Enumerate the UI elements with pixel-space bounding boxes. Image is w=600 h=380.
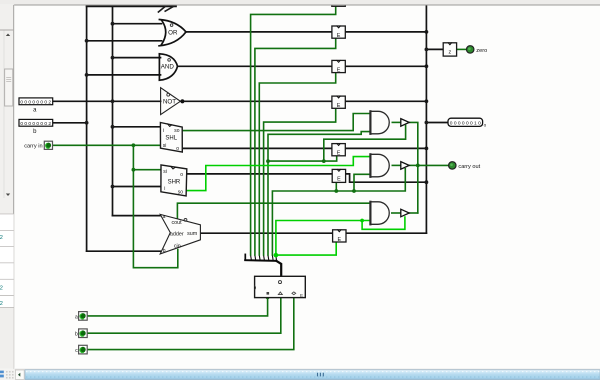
node AND-top tap <box>111 56 115 60</box>
wire AND2 to buffer T2 <box>392 164 400 166</box>
buffer T1 <box>401 119 409 127</box>
wire T3 output joins carry bus <box>409 212 417 214</box>
wire result bus to output pin <box>426 122 448 124</box>
dots grid icon <box>6 371 13 378</box>
wire AND1 to buffer T1 <box>392 121 400 123</box>
svg-text:32: 32 <box>0 301 3 307</box>
attribute area lower gray <box>0 308 14 369</box>
buffer T2 <box>401 162 409 170</box>
node s0 at decoder <box>266 296 270 300</box>
svg-text:o: o <box>176 146 179 152</box>
wire w6 riser to E6 <box>335 183 337 191</box>
wire E2 output to result bus <box>345 31 426 33</box>
node carry-SHR junction <box>132 168 136 172</box>
node carry corner <box>132 143 136 147</box>
svg-text:i: i <box>164 186 165 192</box>
node carry bus junction <box>416 164 420 168</box>
splitter top slashes <box>158 5 176 12</box>
wire a-bus to adder a <box>113 215 161 217</box>
blue bars <box>0 371 4 374</box>
wire SHL so to AND1 top input <box>182 114 370 131</box>
node SHR joins result bus <box>425 180 429 184</box>
wire OR input top <box>113 23 162 25</box>
wire splitter elbow to decoder <box>276 261 281 276</box>
svg-text:E: E <box>337 67 341 73</box>
wire enable w8 bright riser <box>276 221 371 256</box>
wire b-bus vertical <box>86 6 88 251</box>
attribute values teal 2s <box>0 235 3 307</box>
wire AND input bottom <box>87 74 161 76</box>
wire w6 riser to AND2 input <box>354 174 370 191</box>
wire enable w2 <box>255 38 336 255</box>
scrollbar left button <box>15 370 24 379</box>
left panel right border <box>13 5 15 369</box>
scrollbar down arrow <box>6 194 10 197</box>
scrollbar track edge <box>3 31 5 199</box>
svg-text:SHL: SHL <box>165 136 177 142</box>
svg-text:b: b <box>75 332 78 338</box>
wire input b to b-bus <box>53 122 87 124</box>
svg-text:0 0 0 0 0 0 1 0: 0 0 0 0 0 0 1 0 <box>450 121 482 126</box>
svg-text:cin: cin <box>174 244 181 250</box>
wire result bus vertical <box>425 0 427 233</box>
wire adder cout to AND3 <box>177 203 370 219</box>
svg-text:NOT: NOT <box>163 99 176 106</box>
wire splitter spine <box>245 259 276 262</box>
wire carry to SHR si <box>133 169 161 171</box>
attribute table rows <box>0 214 14 308</box>
wire enable w3 <box>259 73 335 255</box>
wire select s2 <box>87 298 294 350</box>
tri-state buffer E4 (NOT) <box>332 96 345 108</box>
tri-state buffer E5 (SHL) <box>332 144 345 156</box>
node output pin tap <box>425 121 429 125</box>
wire b-bus to adder b <box>87 250 161 252</box>
wire enable w1 <box>251 6 336 255</box>
svg-text:0 0 0 0 0 0 0 2: 0 0 0 0 0 0 0 2 <box>20 121 51 126</box>
tri-state buffer E6 (SHR) <box>332 169 345 182</box>
wire enable w6 <box>272 169 405 255</box>
wire OR output to E2 <box>186 31 332 33</box>
wire AND3 to buffer T3 <box>392 212 401 214</box>
input pin b (8-bit) <box>19 119 53 126</box>
node w8 branch junction <box>360 219 364 223</box>
wire top splitter feed <box>87 5 176 7</box>
wire OR input bottom <box>87 40 162 42</box>
svg-text:o: o <box>180 172 183 178</box>
subcircuit SHR <box>161 165 187 196</box>
node w6-AND2 junction <box>352 189 356 193</box>
scrollbar grip <box>318 373 324 377</box>
tri-state buffer E7 (sum) <box>333 230 346 242</box>
node OR-bot tap <box>85 39 89 43</box>
subcircuit zero detector <box>443 43 456 56</box>
left panel background <box>0 5 14 367</box>
svg-text:adder: adder <box>170 231 184 237</box>
node SHR-i tap <box>111 185 115 189</box>
wire AND output to E3 <box>178 65 332 67</box>
node w8 splitter junction <box>274 253 279 258</box>
NOT output bubble <box>180 99 184 103</box>
wire enable w5 vertical <box>268 132 370 255</box>
node w6-E6 junction <box>334 189 338 193</box>
node a joins a-bus <box>111 99 115 103</box>
splitter teeth <box>251 255 277 260</box>
wire select s1 <box>87 298 281 334</box>
tri-state buffer E2 (OR) <box>332 26 345 38</box>
bottom-left corner widgets <box>0 369 15 380</box>
wire result bus to zero detector <box>426 48 443 50</box>
wire carry bus to carry-out LED <box>418 164 448 166</box>
wire SHL data input <box>113 126 162 128</box>
buffer T3 <box>401 209 409 217</box>
wire w8 branch to T3 control <box>362 217 405 229</box>
wire T1 output to carry bus <box>409 122 417 213</box>
wire input a to NOT <box>53 100 161 102</box>
node AND-bot tap <box>85 73 89 77</box>
tri-state buffer E3 (AND) <box>332 60 345 72</box>
svg-text:carry out: carry out <box>458 164 480 170</box>
scrollbar up arrow <box>6 34 10 37</box>
wire enable w5 branch to E5 and gate <box>268 156 337 161</box>
svg-text:si: si <box>163 169 167 175</box>
svg-text:cout: cout <box>171 220 182 226</box>
op-amp style gate OR1 <box>159 20 186 46</box>
gate AND2g (SHL carry) <box>370 111 389 134</box>
wire adder sum to E7 <box>200 232 332 234</box>
wire E6 output jog to result bus <box>345 174 427 182</box>
output LED zero <box>467 46 474 53</box>
svg-text:a: a <box>163 214 166 220</box>
node OR-top tap <box>111 22 115 26</box>
gate NOT1 <box>161 88 181 115</box>
svg-text:E: E <box>337 237 341 243</box>
node OR joins result bus <box>425 30 429 34</box>
wire select s0 <box>87 298 267 316</box>
svg-text:0 0 0 0 0 0 0 2: 0 0 0 0 0 0 0 2 <box>20 99 51 104</box>
node NOT joins result bus <box>425 99 429 103</box>
wire w5 riser to AND1 buffer control <box>324 125 406 161</box>
svg-text:i: i <box>163 128 164 134</box>
svg-text:AND: AND <box>161 64 175 71</box>
wire carry-in down and to adder cin <box>133 145 177 267</box>
node b joins b-bus <box>85 121 89 125</box>
svg-text:E: E <box>337 176 341 182</box>
svg-text:E: E <box>337 151 341 157</box>
svg-text:o: o <box>484 122 487 127</box>
wire w8 to E7 enable <box>276 241 336 256</box>
svg-text:SHR: SHR <box>168 180 181 186</box>
gate AND1g <box>159 54 177 80</box>
node AND joins result bus <box>425 64 429 68</box>
svg-text:b: b <box>163 248 166 254</box>
svg-text:E: E <box>337 103 341 109</box>
wire a-bus vertical <box>112 6 114 215</box>
subcircuit decoder <box>255 276 306 297</box>
svg-text:E: E <box>300 293 303 298</box>
input pin a (8-bit) <box>19 98 53 105</box>
svg-text:a: a <box>75 314 78 320</box>
wire SHR o output to E6 <box>187 173 332 175</box>
horizontal scrollbar track <box>15 369 600 380</box>
svg-text:OR: OR <box>168 29 178 36</box>
top toolbar strip <box>0 0 600 5</box>
wire SHR data input <box>113 186 162 188</box>
wire carry-in main <box>53 144 161 146</box>
svg-text:so: so <box>174 128 180 134</box>
wire E5 output to result bus <box>345 147 426 149</box>
node w5 T junction <box>266 159 270 163</box>
svg-text:E: E <box>337 33 341 39</box>
node zero tap <box>425 48 429 52</box>
panel divider <box>0 29 14 31</box>
subcircuit adder <box>160 214 200 254</box>
node w5 branch junction <box>322 159 326 163</box>
output LED carry out <box>449 162 456 169</box>
node SHL-i tap <box>111 125 115 129</box>
tri-state buffer E1 (top, cut off) <box>332 0 346 6</box>
wire NOT output to E4 <box>184 100 332 102</box>
subcircuit SHL <box>160 123 182 153</box>
wire T2 output joins carry bus <box>409 164 417 166</box>
gate AND4g (adder carry) <box>370 202 389 225</box>
output pin result (8-bit) <box>448 118 483 126</box>
wire SHL o output to E5 <box>182 147 332 149</box>
wire splitter left stub <box>244 254 246 260</box>
wire enable w4 <box>264 108 336 255</box>
node SHL joins result bus <box>425 147 429 151</box>
wire SHR so bright <box>186 157 370 191</box>
gate AND3g (SHR carry) <box>370 154 389 177</box>
svg-text:32: 32 <box>0 286 3 292</box>
wire E3 output to result bus <box>345 65 426 67</box>
svg-text:so: so <box>178 190 184 196</box>
svg-text:si: si <box>163 143 167 149</box>
svg-text:z: z <box>449 50 452 56</box>
wire zero detector to LED <box>457 48 466 50</box>
scrollbar thumb <box>5 69 13 106</box>
wire AND input top <box>113 57 161 59</box>
svg-text:zero: zero <box>476 48 487 54</box>
svg-text:carry in: carry in <box>24 143 42 149</box>
wire E4 output to result bus <box>345 100 426 102</box>
wire E7 output to result bus corner <box>344 232 426 234</box>
svg-text:32: 32 <box>0 235 3 241</box>
svg-text:sum: sum <box>187 231 198 237</box>
